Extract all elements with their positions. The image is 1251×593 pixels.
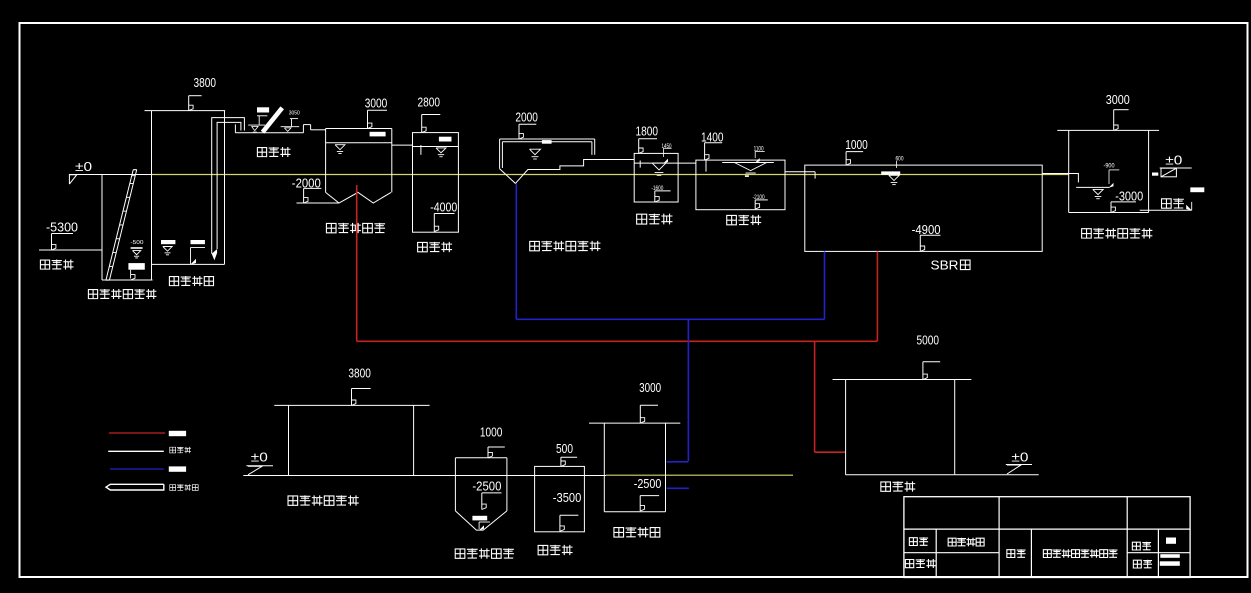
svg-text:-4000: -4000 (430, 200, 457, 215)
svg-text:-4900: -4900 (912, 222, 941, 237)
svg-text:1800: 1800 (636, 123, 659, 138)
svg-text:3000: 3000 (639, 380, 661, 395)
svg-text:3000: 3000 (365, 96, 388, 111)
svg-text:2000: 2000 (515, 109, 538, 124)
svg-text:±0: ±0 (1165, 153, 1182, 168)
svg-text:-3000: -3000 (1115, 189, 1143, 204)
svg-text:2800: 2800 (418, 95, 441, 110)
svg-text:1450: 1450 (662, 144, 672, 150)
svg-text:5000: 5000 (917, 333, 940, 348)
svg-text:-900: -900 (1104, 163, 1116, 169)
svg-text:-5300: -5300 (46, 220, 78, 235)
svg-text:-500: -500 (131, 240, 144, 246)
svg-text:3050: 3050 (289, 110, 300, 116)
svg-text:1000: 1000 (480, 425, 503, 440)
svg-text:3000: 3000 (1106, 92, 1130, 107)
svg-text:-2500: -2500 (634, 476, 662, 491)
svg-text:-3500: -3500 (553, 490, 582, 505)
svg-text:SBR: SBR (931, 258, 959, 273)
svg-text:±0: ±0 (251, 450, 268, 465)
svg-text:±0: ±0 (1011, 450, 1028, 465)
svg-text:-2500: -2500 (472, 479, 501, 494)
svg-text:3800: 3800 (348, 366, 371, 381)
svg-text:3800: 3800 (194, 75, 217, 90)
svg-text:1000: 1000 (845, 137, 868, 152)
svg-text:500: 500 (556, 441, 573, 456)
svg-text:±0: ±0 (75, 159, 92, 174)
